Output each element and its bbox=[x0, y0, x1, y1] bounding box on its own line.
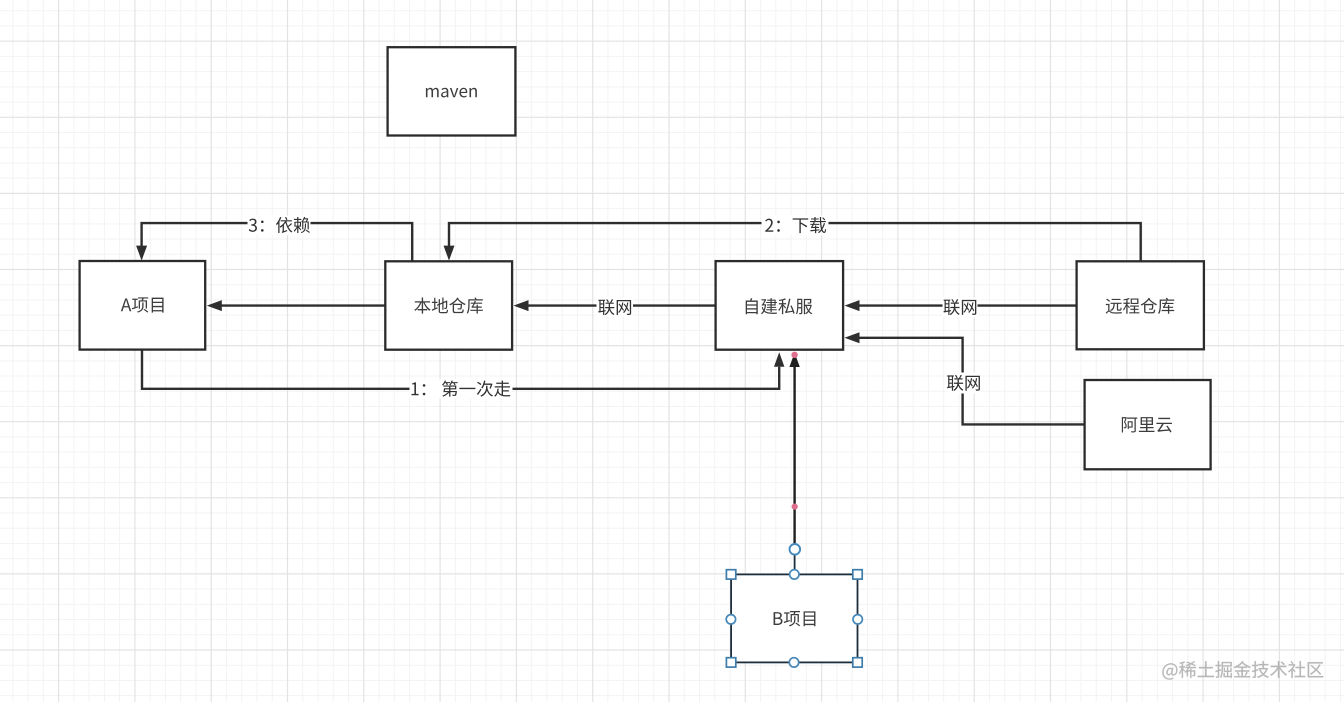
label "B项目" bbox=[774, 611, 816, 626]
arrowhead into 自建私服 right edge lower bbox=[845, 332, 860, 343]
arrowhead into 自建私服 bottom from B项目 bbox=[789, 353, 799, 367]
box 本地仓库 bbox=[385, 261, 512, 349]
arrowhead into 本地仓库 top bbox=[444, 246, 455, 261]
label "A项目" bbox=[121, 297, 164, 312]
label "远程仓库" bbox=[1106, 298, 1175, 314]
selection corner handles of B项目 bbox=[726, 570, 862, 667]
box A项目 bbox=[80, 261, 206, 350]
label "3：依赖" on connector bbox=[249, 217, 310, 233]
label "联网" between 自建私服 and 本地仓库 bbox=[598, 299, 631, 315]
wire "联网" 自建私服 to 本地仓库 bbox=[528, 304, 716, 306]
arrowhead into 本地仓库 right edge bbox=[514, 300, 529, 311]
wire 本地仓库 to A项目 bbox=[222, 304, 386, 306]
arrowhead into 自建私服 right edge upper bbox=[845, 300, 860, 311]
connector endpoint circle handle bbox=[790, 544, 801, 555]
label "自建私服" bbox=[746, 298, 813, 314]
box B项目 (selected) bbox=[731, 574, 857, 662]
label background patches bbox=[248, 216, 981, 399]
selection midpoint handles of B项目 bbox=[726, 570, 862, 667]
wire connector "2：下载" from 远程仓库 top to 本地仓库 top bbox=[449, 223, 1141, 261]
box 自建私服 bbox=[716, 261, 844, 350]
arrowhead into A项目 top bbox=[136, 246, 147, 261]
wire connector tail below endpoint circle bbox=[794, 555, 796, 574]
arrowhead into 自建私服 bottom from A项目 bbox=[774, 352, 784, 367]
wire "1：第一次走" from A项目 bottom to 自建私服 bottom bbox=[142, 350, 779, 389]
label "联网" between 远程仓库 and 自建私服 bbox=[943, 299, 976, 315]
label "maven" bbox=[426, 88, 477, 98]
label "1： 第一次走" on connector bbox=[412, 380, 511, 396]
pink waypoint dot on connector bbox=[792, 504, 798, 510]
label "本地仓库" bbox=[414, 298, 483, 314]
watermark "@稀土掘金技术社区" bbox=[1162, 661, 1323, 680]
arrowhead into A项目 right edge bbox=[207, 300, 222, 311]
box 远程仓库 bbox=[1077, 261, 1204, 349]
wire "联网" 远程仓库 to 自建私服 bbox=[859, 304, 1077, 306]
box maven bbox=[388, 47, 516, 135]
wire connector "3：依赖" from 本地仓库 top to A项目 top bbox=[142, 223, 413, 261]
label "阿里云" bbox=[1122, 417, 1172, 432]
label "联网" on 阿里云 connector bbox=[947, 375, 980, 391]
pink endpoint dot at 自建私服 bottom bbox=[791, 352, 797, 358]
wire "联网" 阿里云 to 自建私服 bbox=[859, 338, 1085, 425]
wire selected connector B项目 to 自建私服 bbox=[793, 367, 795, 544]
label "2：下载" on connector bbox=[765, 217, 826, 233]
box 阿里云 bbox=[1085, 380, 1211, 469]
